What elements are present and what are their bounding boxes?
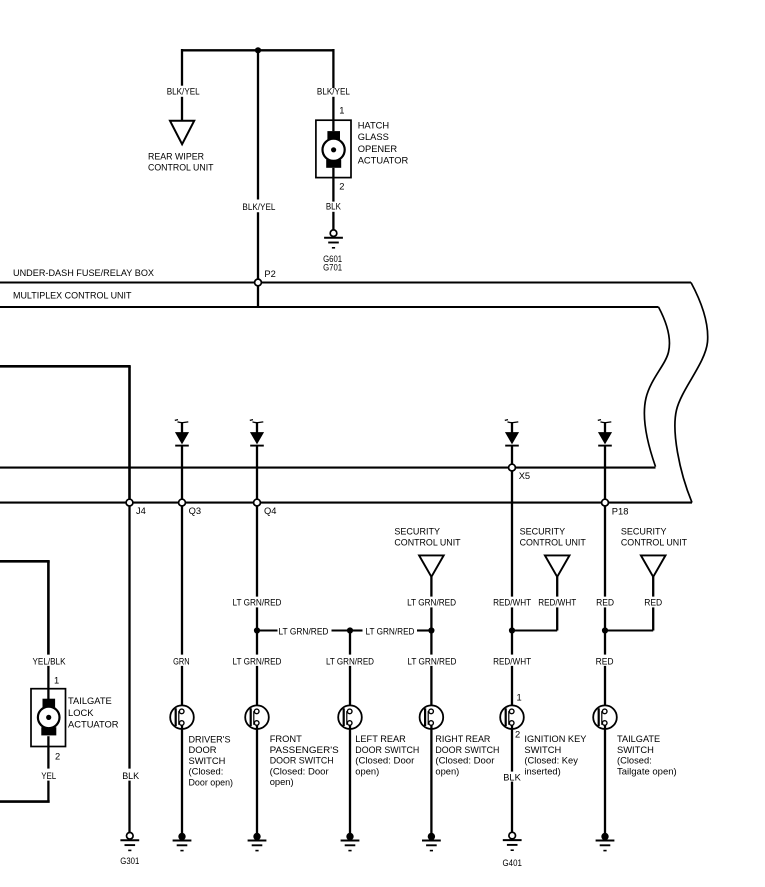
- svg-text:1: 1: [54, 676, 59, 686]
- svg-text:inserted): inserted): [524, 766, 560, 776]
- svg-text:CONTROL UNIT: CONTROL UNIT: [621, 538, 687, 548]
- svg-text:RED/WHT: RED/WHT: [493, 657, 531, 667]
- svg-text:Door open): Door open): [189, 777, 234, 787]
- svg-text:SECURITY: SECURITY: [394, 526, 440, 536]
- svg-text:DOOR: DOOR: [189, 745, 217, 755]
- svg-text:BLK/YEL: BLK/YEL: [242, 202, 275, 212]
- svg-text:Tailgate open): Tailgate open): [617, 766, 677, 776]
- svg-text:SWITCH: SWITCH: [617, 745, 654, 755]
- svg-text:LEFT REAR: LEFT REAR: [355, 734, 406, 744]
- svg-text:Q4: Q4: [264, 506, 276, 516]
- svg-text:RED/WHT: RED/WHT: [493, 597, 531, 607]
- svg-text:CONTROL UNIT: CONTROL UNIT: [148, 162, 214, 172]
- svg-text:GLASS: GLASS: [358, 132, 389, 142]
- svg-text:LT GRN/RED: LT GRN/RED: [366, 626, 415, 636]
- svg-text:G401: G401: [503, 858, 522, 868]
- svg-text:MULTIPLEX CONTROL UNIT: MULTIPLEX CONTROL UNIT: [13, 291, 132, 301]
- svg-text:DRIVER'S: DRIVER'S: [189, 734, 231, 744]
- svg-text:2: 2: [339, 181, 344, 191]
- svg-text:open): open): [355, 766, 379, 776]
- svg-text:BLK/YEL: BLK/YEL: [167, 87, 200, 97]
- svg-text:HATCH: HATCH: [358, 120, 390, 130]
- svg-text:SWITCH: SWITCH: [189, 756, 226, 766]
- svg-text:DOOR SWITCH: DOOR SWITCH: [435, 745, 499, 755]
- svg-text:GRN: GRN: [173, 657, 190, 667]
- svg-text:YEL: YEL: [41, 771, 56, 781]
- svg-text:(Closed: Door: (Closed: Door: [270, 766, 329, 776]
- svg-text:LT GRN/RED: LT GRN/RED: [407, 597, 456, 607]
- svg-text:X5: X5: [519, 471, 530, 481]
- svg-text:RED: RED: [596, 657, 614, 667]
- svg-text:RED/WHT: RED/WHT: [538, 597, 576, 607]
- svg-text:RED: RED: [596, 597, 614, 607]
- svg-text:TAILGATE: TAILGATE: [68, 696, 112, 706]
- svg-text:J4: J4: [136, 506, 146, 516]
- svg-text:1: 1: [339, 106, 344, 116]
- svg-text:ACTUATOR: ACTUATOR: [68, 720, 119, 730]
- svg-text:BLK: BLK: [122, 771, 140, 781]
- svg-text:BLK: BLK: [503, 772, 521, 782]
- svg-text:Q3: Q3: [189, 506, 201, 516]
- svg-text:CONTROL UNIT: CONTROL UNIT: [520, 538, 586, 548]
- svg-text:LT GRN/RED: LT GRN/RED: [233, 597, 282, 607]
- svg-text:G701: G701: [323, 263, 342, 273]
- svg-text:REAR WIPER: REAR WIPER: [148, 152, 204, 162]
- svg-text:SECURITY: SECURITY: [621, 526, 667, 536]
- svg-text:LT GRN/RED: LT GRN/RED: [326, 657, 374, 667]
- svg-text:DOOR SWITCH: DOOR SWITCH: [355, 745, 419, 755]
- svg-text:G301: G301: [120, 856, 139, 866]
- svg-text:BLK: BLK: [326, 202, 342, 212]
- svg-text:TAILGATE: TAILGATE: [617, 734, 660, 744]
- svg-text:LT GRN/RED: LT GRN/RED: [233, 657, 282, 667]
- svg-text:BLK/YEL: BLK/YEL: [317, 87, 350, 97]
- svg-text:P2: P2: [264, 269, 275, 279]
- svg-text:ACTUATOR: ACTUATOR: [358, 156, 409, 166]
- svg-text:FRONT: FRONT: [270, 734, 302, 744]
- svg-text:(Closed:: (Closed:: [617, 756, 652, 766]
- svg-text:SWITCH: SWITCH: [524, 745, 561, 755]
- svg-text:OPENER: OPENER: [358, 144, 398, 154]
- svg-text:UNDER-DASH FUSE/RELAY BOX: UNDER-DASH FUSE/RELAY BOX: [13, 268, 155, 278]
- svg-text:2: 2: [55, 751, 60, 761]
- svg-text:LT GRN/RED: LT GRN/RED: [407, 657, 456, 667]
- svg-text:IGNITION KEY: IGNITION KEY: [524, 734, 587, 744]
- svg-text:RED: RED: [644, 597, 662, 607]
- svg-text:DOOR SWITCH: DOOR SWITCH: [270, 756, 334, 766]
- svg-text:SECURITY: SECURITY: [520, 526, 566, 536]
- svg-text:LOCK: LOCK: [68, 708, 94, 718]
- svg-text:RIGHT REAR: RIGHT REAR: [435, 734, 490, 744]
- svg-text:PASSENGER'S: PASSENGER'S: [270, 745, 339, 755]
- svg-text:YEL/BLK: YEL/BLK: [33, 657, 67, 667]
- svg-text:CONTROL UNIT: CONTROL UNIT: [394, 538, 460, 548]
- svg-text:(Closed: Key: (Closed: Key: [524, 756, 578, 766]
- svg-text:(Closed: Door: (Closed: Door: [435, 756, 494, 766]
- svg-text:(Closed:: (Closed:: [189, 767, 224, 777]
- svg-text:open): open): [270, 777, 294, 787]
- svg-text:open): open): [435, 766, 459, 776]
- svg-text:LT GRN/RED: LT GRN/RED: [279, 626, 329, 636]
- svg-text:2: 2: [515, 729, 520, 739]
- svg-text:(Closed: Door: (Closed: Door: [355, 756, 414, 766]
- svg-text:P18: P18: [612, 507, 629, 517]
- svg-text:1: 1: [517, 693, 522, 703]
